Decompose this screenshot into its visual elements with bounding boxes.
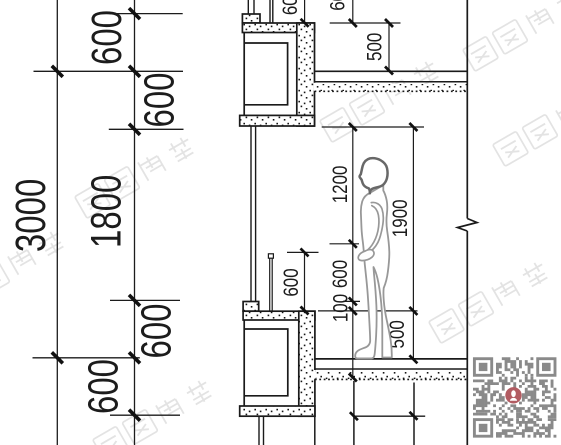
upper C bottom flange: [240, 115, 315, 126]
QR finder top-right: [538, 359, 555, 376]
svg-text:1800: 1800: [84, 175, 131, 248]
top mullion pair: [269, 0, 271, 23]
extension y=310.9: [318, 310, 418, 312]
svg-text:600: 600: [280, 268, 303, 296]
500 dim line (upper): [388, 23, 390, 71]
dimension line chain2 (600/600/1800/600/600): [134, 0, 136, 445]
watermark A: [75, 133, 197, 218]
dim line y=23: [330, 22, 401, 24]
extension line y=13.6: [110, 13, 183, 15]
lower C niche lining: [244, 320, 288, 406]
guard rail on lower sill: [268, 254, 273, 311]
extension y=243.8: [330, 243, 360, 245]
arm inner contour: [365, 206, 379, 253]
svg-text:100: 100: [330, 294, 353, 322]
upper C right band: [297, 23, 315, 126]
lower C stub: [243, 302, 259, 312]
svg-text:3000: 3000: [8, 179, 55, 252]
chain x=352.8: [352, 127, 354, 378]
extension line y=300.4: [110, 299, 180, 301]
svg-text:600: 600: [134, 303, 181, 358]
svg-text:600: 600: [137, 72, 184, 127]
bottom window frame pair: [258, 416, 260, 445]
rail dim extension y=252.4: [287, 251, 319, 253]
QR finder bottom-left: [474, 420, 491, 437]
top partial dim lines: [352, 0, 354, 23]
arm outer contour: [363, 202, 383, 256]
upper slab: [314, 71, 468, 91]
QR finder top-left: [474, 359, 491, 376]
svg-text:500: 500: [364, 33, 387, 61]
svg-text:600: 600: [81, 359, 128, 414]
extension line y=415.2: [110, 414, 180, 416]
extension line y=71.3: [34, 70, 184, 72]
1900 line x=413.4: [412, 127, 414, 359]
upper C top flange: [242, 23, 314, 33]
svg-text:600: 600: [327, 0, 350, 11]
watermark F: [93, 376, 215, 445]
lower C right band: [299, 311, 315, 416]
right dim texts: [279, 0, 412, 348]
hand: [358, 250, 374, 261]
upper C niche lining: [244, 33, 287, 116]
rail dim line x=304.5: [304, 252, 306, 311]
dim line y=127: [322, 126, 424, 128]
svg-text:1900: 1900: [389, 199, 412, 237]
QR code: [473, 357, 556, 437]
middle window frame pair: [250, 126, 252, 302]
extension y=301.5: [343, 300, 360, 302]
extension line y=129.3: [109, 128, 184, 130]
watermark I: [493, 81, 561, 166]
svg-text:600: 600: [329, 260, 352, 288]
svg-text:600: 600: [279, 0, 302, 15]
QR center logo: [505, 387, 521, 403]
svg-text:600: 600: [84, 10, 131, 65]
dimension line chain1 (3000): [56, 0, 58, 445]
body silhouette: [355, 185, 392, 358]
watermark B: [320, 57, 442, 142]
lower C top flange: [243, 311, 315, 320]
watermark E: [0, 227, 67, 312]
dimension ticks (right group): [301, 19, 418, 420]
watermark G: [429, 258, 551, 343]
lower slab: [314, 359, 467, 380]
upper C stub: [242, 14, 260, 23]
svg-text:1200: 1200: [329, 165, 352, 203]
extension line y=357.8: [33, 357, 140, 359]
head (darker): [360, 158, 388, 193]
dimension ticks (left chains): [52, 8, 140, 421]
top window frame pair: [247, 0, 249, 14]
watermark C: [463, 0, 561, 71]
lower C bottom flange: [240, 406, 315, 416]
left chain texts: [8, 10, 183, 414]
